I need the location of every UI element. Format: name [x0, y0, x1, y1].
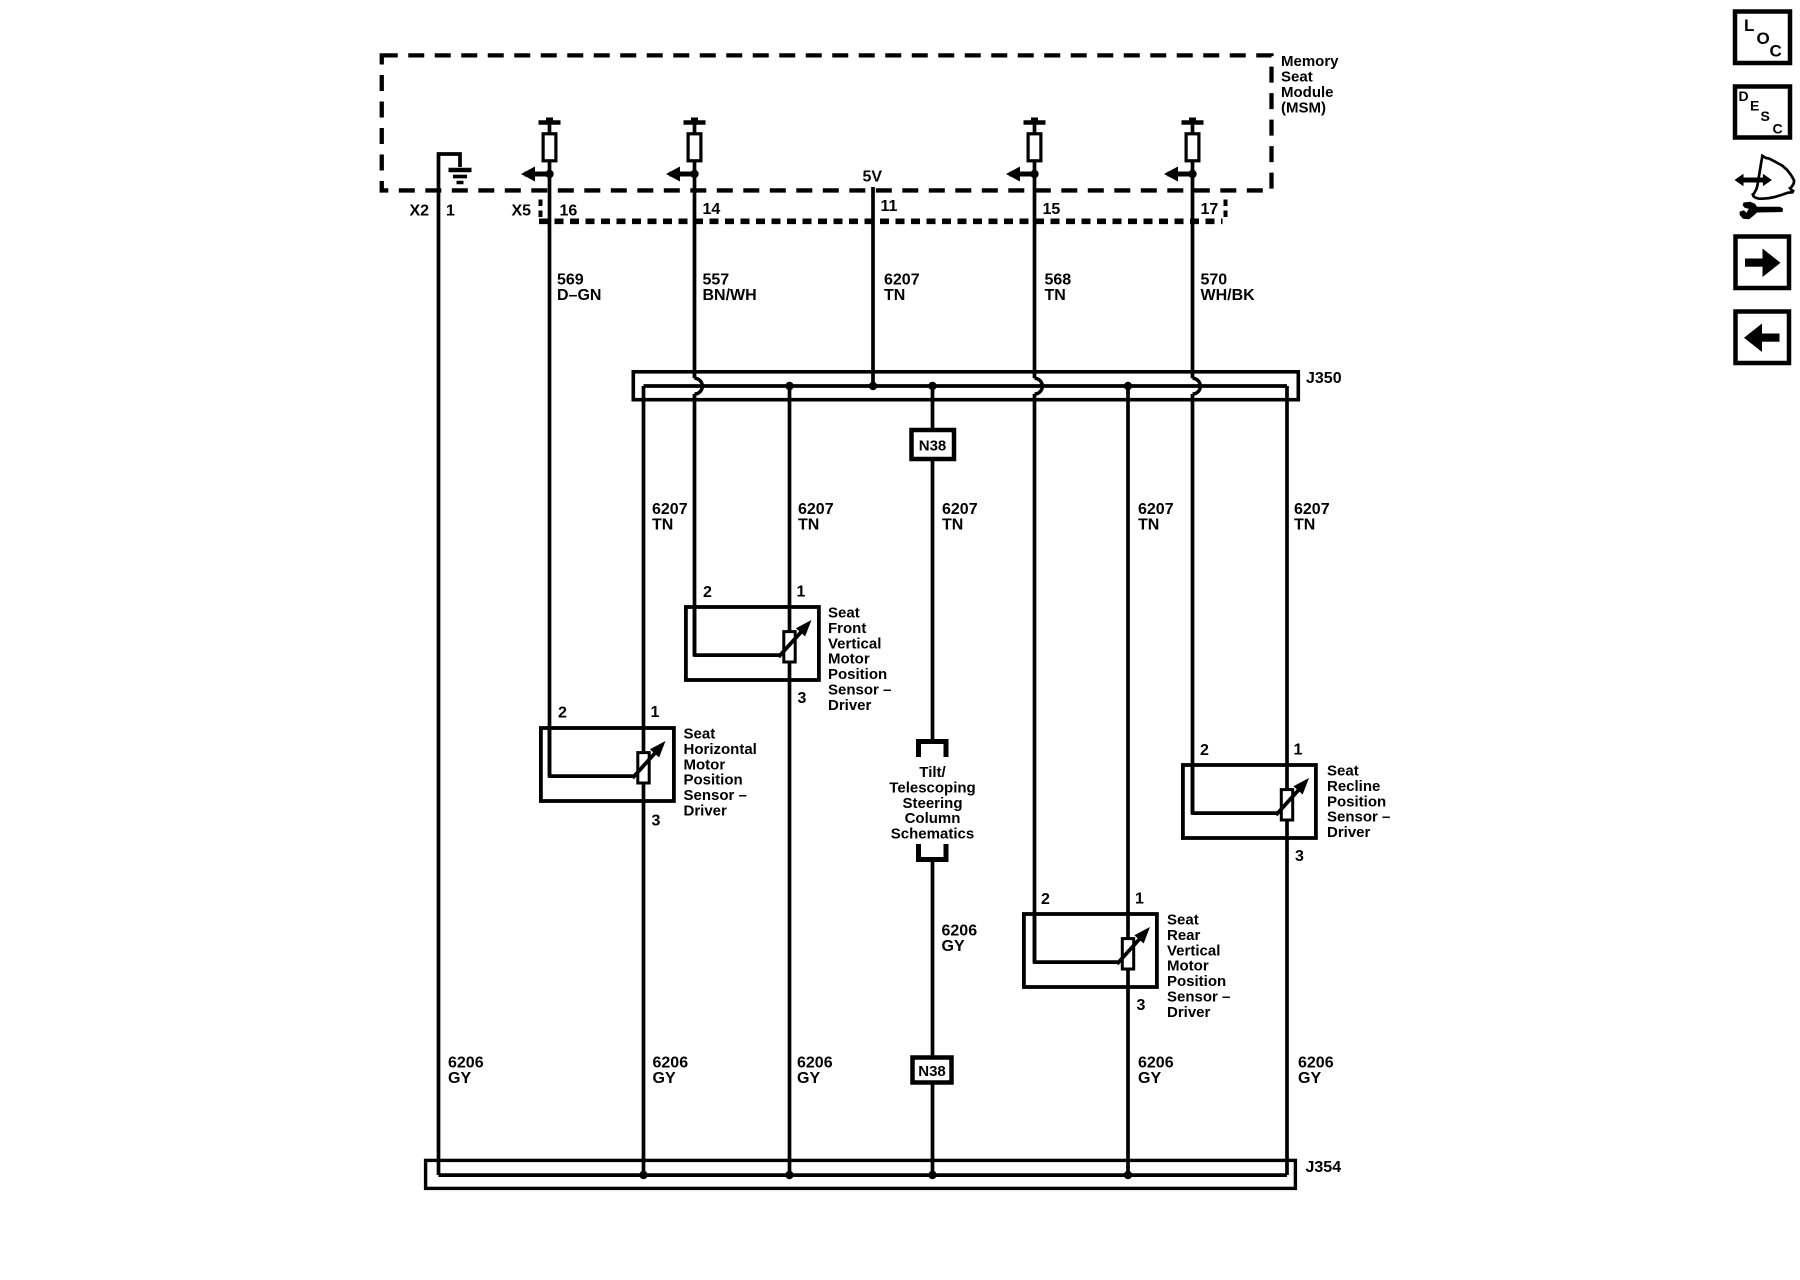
- svg-text:570: 570: [1201, 272, 1228, 289]
- svg-text:6206: 6206: [797, 1055, 833, 1072]
- svg-text:TN: TN: [798, 517, 819, 534]
- svg-text:569: 569: [557, 272, 584, 289]
- svg-text:3: 3: [652, 813, 661, 830]
- svg-text:TN: TN: [652, 517, 673, 534]
- svg-text:11: 11: [881, 198, 898, 215]
- svg-text:6206: 6206: [1298, 1055, 1334, 1072]
- svg-text:C: C: [1773, 121, 1783, 137]
- svg-text:D–GN: D–GN: [557, 287, 601, 304]
- svg-text:Memory: Memory: [1281, 53, 1339, 70]
- svg-text:6207: 6207: [942, 501, 978, 518]
- svg-text:1: 1: [1294, 742, 1303, 759]
- svg-text:GY: GY: [653, 1070, 676, 1087]
- svg-text:GY: GY: [942, 938, 965, 955]
- svg-text:6206: 6206: [1138, 1055, 1174, 1072]
- svg-text:17: 17: [1201, 201, 1219, 218]
- svg-text:1: 1: [651, 704, 660, 721]
- svg-text:J350: J350: [1306, 370, 1342, 387]
- svg-text:2: 2: [558, 705, 567, 722]
- svg-text:TN: TN: [942, 517, 963, 534]
- svg-text:Driver: Driver: [1167, 1004, 1211, 1021]
- svg-text:BN/WH: BN/WH: [703, 287, 757, 304]
- svg-text:2: 2: [1041, 891, 1050, 908]
- svg-text:N38: N38: [918, 1063, 946, 1080]
- svg-text:3: 3: [1137, 997, 1146, 1014]
- svg-text:Seat: Seat: [1281, 69, 1313, 86]
- svg-text:E: E: [1750, 98, 1759, 114]
- svg-text:O: O: [1757, 29, 1770, 48]
- svg-text:S: S: [1761, 108, 1770, 124]
- svg-text:16: 16: [560, 203, 578, 220]
- svg-text:6207: 6207: [1294, 501, 1330, 518]
- svg-text:557: 557: [703, 272, 730, 289]
- svg-text:Schematics: Schematics: [891, 826, 974, 843]
- svg-text:GY: GY: [448, 1070, 471, 1087]
- svg-text:Module: Module: [1281, 84, 1334, 101]
- svg-text:3: 3: [798, 690, 807, 707]
- svg-text:GY: GY: [1298, 1070, 1321, 1087]
- svg-text:TN: TN: [1045, 287, 1066, 304]
- svg-text:WH/BK: WH/BK: [1201, 287, 1256, 304]
- svg-text:6207: 6207: [884, 272, 920, 289]
- svg-text:Driver: Driver: [828, 697, 872, 714]
- svg-text:568: 568: [1045, 272, 1072, 289]
- svg-text:L: L: [1744, 16, 1754, 35]
- svg-text:1: 1: [446, 203, 455, 220]
- svg-text:N38: N38: [919, 438, 947, 455]
- svg-text:1: 1: [1135, 891, 1144, 908]
- svg-text:D: D: [1739, 88, 1749, 104]
- svg-text:6207: 6207: [652, 501, 688, 518]
- svg-text:6207: 6207: [798, 501, 834, 518]
- svg-text:C: C: [1770, 42, 1782, 61]
- svg-text:6206: 6206: [942, 923, 978, 940]
- svg-text:6206: 6206: [653, 1055, 689, 1072]
- svg-text:6207: 6207: [1138, 501, 1174, 518]
- svg-text:2: 2: [1200, 742, 1209, 759]
- svg-text:14: 14: [703, 201, 721, 218]
- svg-text:Driver: Driver: [684, 803, 728, 820]
- svg-text:3: 3: [1295, 848, 1304, 865]
- svg-text:15: 15: [1043, 201, 1061, 218]
- svg-text:TN: TN: [884, 287, 905, 304]
- svg-text:X5: X5: [512, 203, 532, 220]
- svg-text:(MSM): (MSM): [1281, 100, 1326, 117]
- svg-text:GY: GY: [797, 1070, 820, 1087]
- svg-text:Driver: Driver: [1327, 824, 1371, 841]
- svg-text:6206: 6206: [448, 1055, 484, 1072]
- svg-text:J354: J354: [1306, 1159, 1342, 1176]
- svg-text:2: 2: [703, 584, 712, 601]
- svg-text:GY: GY: [1138, 1070, 1161, 1087]
- svg-text:1: 1: [797, 584, 806, 601]
- svg-text:TN: TN: [1138, 517, 1159, 534]
- svg-text:TN: TN: [1294, 517, 1315, 534]
- svg-text:X2: X2: [410, 203, 430, 220]
- svg-text:5V: 5V: [863, 169, 883, 186]
